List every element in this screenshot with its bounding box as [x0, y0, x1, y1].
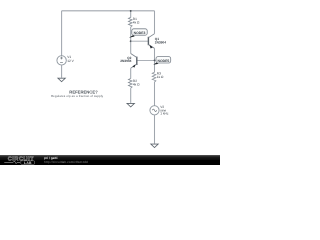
svg-text:NODE3: NODE3	[134, 31, 146, 35]
wire right column top (rail to Q1 collector)	[154, 11, 156, 34]
svg-text:12 V: 12 V	[67, 59, 74, 63]
wire right column bottom	[154, 115, 156, 144]
flag pointer NODE5	[153, 62, 158, 65]
junction dot (rail / R1)	[130, 10, 132, 12]
wire left column lower	[61, 65, 63, 78]
svg-text:1k Ω: 1k Ω	[157, 75, 164, 79]
svg-text:4k Ω: 4k Ω	[133, 82, 140, 86]
wire middle column (Q2 emitter to R2)	[130, 68, 132, 78]
svg-text:4k Ω: 4k Ω	[133, 20, 140, 24]
node NODE5	[156, 57, 171, 63]
CircuitLab logo	[4, 156, 34, 165]
wire middle column bottom	[130, 88, 132, 103]
ground (under V1)	[58, 78, 65, 82]
ground (under V2)	[151, 144, 158, 148]
wire right column (Q1 emitter down)	[154, 48, 156, 72]
wire middle column (R1 to Q2 collector)	[130, 27, 132, 54]
node NODE3	[132, 29, 147, 35]
wire right column (R3 to V2)	[154, 82, 156, 106]
transistor Q1	[131, 34, 166, 49]
wire middle column top stub	[130, 11, 132, 18]
wire left column upper	[61, 11, 63, 56]
flag pointer NODE3	[129, 35, 135, 38]
voltage source V2 (sine)	[150, 106, 159, 115]
svg-text:2N3904: 2N3904	[155, 41, 166, 45]
annotation text	[51, 89, 104, 97]
voltage source V1	[57, 56, 66, 65]
ground (under R2)	[127, 103, 134, 107]
svg-text:2N3904: 2N3904	[120, 59, 131, 63]
wire top rail	[62, 10, 155, 12]
svg-text:LAB: LAB	[24, 161, 32, 165]
svg-text:NODE5: NODE5	[158, 59, 170, 63]
resistor R3	[152, 72, 156, 82]
junction dot (Q1 base tap)	[130, 40, 132, 42]
svg-text:Regulates o/p as a fraction of: Regulates o/p as a fraction of supply	[51, 94, 104, 98]
resistor R1	[128, 17, 132, 27]
junction dot (Q2 base / right column)	[154, 60, 156, 62]
svg-text:1 kHz: 1 kHz	[160, 112, 169, 116]
transistor Q2	[120, 54, 154, 69]
svg-text:http://circuitlab.com/c8sm4dd: http://circuitlab.com/c8sm4dd	[44, 160, 88, 164]
resistor R2	[128, 79, 132, 89]
